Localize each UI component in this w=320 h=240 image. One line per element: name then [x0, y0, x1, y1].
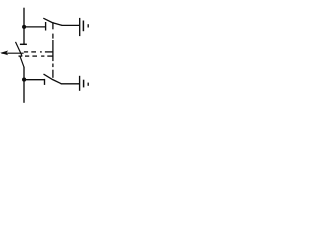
node B (lower junction dot): [22, 78, 26, 82]
battery B1 terminal tick: [87, 24, 89, 27]
battery B2 long plate: [79, 76, 81, 91]
battery B1 long plate: [79, 18, 81, 36]
switch S1 blade (open): [43, 18, 62, 25]
switch S1 fixed contact bar: [45, 22, 47, 31]
mechanical linkage (dashed) between S1 and S2: [52, 22, 54, 78]
switch S2 blade (open): [44, 74, 62, 84]
wire: from S1 blade pivot to battery B1: [62, 24, 80, 26]
wire: upper left vertical lead: [23, 8, 25, 45]
armature blade upper diagonal: [16, 42, 22, 56]
armature motion arrowhead: [0, 51, 8, 56]
wire: upper horizontal from node A to switch S1: [24, 26, 46, 28]
wire: lower horizontal from node B to switch S2: [24, 79, 45, 81]
wire: lower left vertical lead: [23, 67, 25, 103]
switch S2 fixed contact bar: [44, 79, 46, 85]
node A (upper junction dot): [22, 25, 26, 29]
wire: from S2 blade pivot to battery B2: [61, 83, 80, 85]
dashed tie row upper (to linkage bar): [24, 51, 53, 53]
contact T-bar of vertical armature gap (upper): [20, 43, 27, 45]
battery B2 terminal tick: [87, 83, 89, 86]
armature blade lower diagonal: [20, 56, 24, 67]
battery B1 short plate: [82, 21, 84, 32]
armature motion arrow shaft: [2, 52, 24, 54]
battery B2 short plate: [83, 80, 85, 88]
dashed tie row lower (to linkage bar): [19, 55, 53, 57]
